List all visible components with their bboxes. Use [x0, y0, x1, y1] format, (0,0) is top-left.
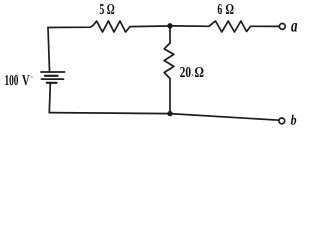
svg-text:V: V: [22, 73, 30, 89]
svg-text:Ω: Ω: [225, 2, 234, 18]
svg-text:a: a: [291, 16, 297, 36]
svg-text:100: 100: [5, 73, 19, 89]
svg-text:b: b: [291, 114, 297, 129]
svg-text:20: 20: [180, 65, 191, 81]
svg-text:Ω: Ω: [107, 2, 115, 18]
svg-text:Ω: Ω: [194, 65, 204, 81]
svg-text:5: 5: [99, 2, 104, 18]
svg-text:6: 6: [217, 2, 222, 18]
